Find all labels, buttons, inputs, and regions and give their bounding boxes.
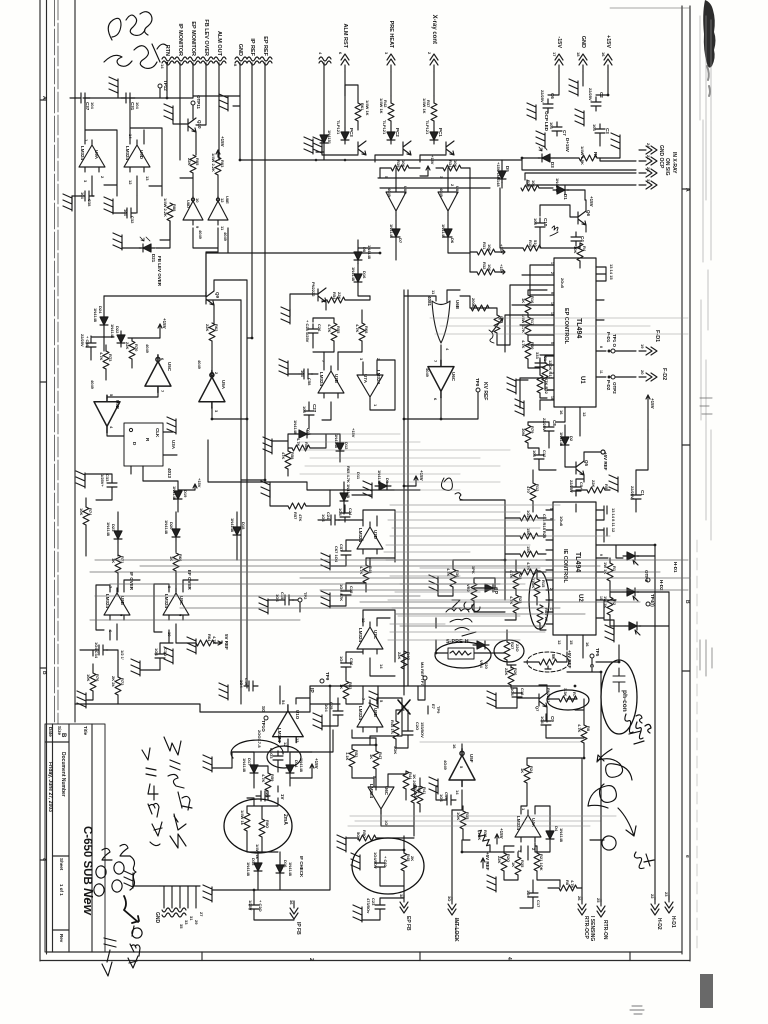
resistor R34 10K [443, 165, 461, 171]
capacitor C1 [631, 490, 641, 504]
capacitor C9 [541, 716, 551, 730]
title block col line 1 [52, 724, 54, 952]
optocoupler PC2 transistor [403, 141, 411, 155]
wire U8B mid [322, 686, 402, 745]
svg-text:R79: R79 [530, 426, 535, 434]
bus wire x408 [407, 290, 409, 686]
svg-text:R4O: R4O [406, 652, 411, 660]
capacitor C37 [76, 93, 90, 103]
bus wire x252 elbow [247, 337, 252, 339]
svg-text:+15V: +15V [430, 155, 435, 165]
svg-text:1O4: 1O4 [540, 716, 545, 724]
svg-text:PC3: PC3 [349, 128, 354, 137]
svg-text:R62: R62 [214, 324, 219, 332]
capacitor C32 [122, 208, 136, 218]
svg-text:LM324: LM324 [516, 816, 521, 831]
resistor R23 4.7K [513, 595, 519, 613]
frame top faint line [610, 7, 690, 9]
handwriting 10mA [128, 926, 142, 968]
svg-text:4.7K: 4.7K [99, 352, 104, 361]
transistor Q5 [576, 461, 584, 475]
svg-text:Q5: Q5 [584, 460, 589, 467]
ground R57 [261, 481, 270, 498]
capacitor C3 104 [595, 124, 605, 138]
svg-text:2: 2 [550, 272, 554, 274]
buffer U8B top [386, 187, 406, 216]
resistor R53 1K [343, 681, 349, 699]
op-amp U6D [368, 782, 394, 814]
svg-text:22K: 22K [497, 856, 502, 863]
diode D21 LED [139, 244, 155, 252]
diode D18 [233, 523, 241, 539]
svg-text:6: 6 [433, 398, 438, 401]
svg-text:H-D1: H-D1 [673, 562, 678, 573]
svg-text:R31: R31 [482, 242, 487, 250]
svg-text:11: 11 [431, 290, 436, 295]
svg-text:U9D: U9D [139, 150, 144, 160]
wire RTR-OCP vertical [581, 758, 583, 900]
svg-text:C9: C9 [550, 716, 555, 722]
svg-text:D16: D16 [283, 860, 288, 868]
wire C8 R79 D2 [528, 422, 565, 470]
svg-text:c: c [41, 858, 47, 861]
svg-text:4.7K: 4.7K [521, 340, 526, 349]
resistor R80b [259, 819, 265, 837]
svg-text:16: 16 [601, 52, 606, 57]
op-amp U8B low [104, 588, 130, 620]
svg-text:47K: 47K [298, 514, 303, 521]
zone tick bottom 3 [629, 952, 631, 961]
SCR S2 gate [633, 596, 638, 601]
+15V arrow D14 [310, 764, 314, 778]
svg-text:U2: U2 [577, 594, 583, 602]
wire U1 pins left [497, 265, 554, 410]
svg-text:1/25V+: 1/25V+ [100, 474, 105, 487]
svg-text:3: 3 [384, 52, 389, 55]
svg-text:9: 9 [178, 614, 183, 617]
svg-text:13 14 15: 13 14 15 [609, 264, 614, 280]
svg-text:22K: 22K [125, 342, 130, 349]
connector chevron EP FB [400, 895, 408, 913]
ph-con pen ellipse [601, 660, 637, 734]
svg-text:PN2222: PN2222 [311, 282, 316, 297]
connector pin IP MONITOR [175, 57, 187, 65]
svg-text:R39: R39 [396, 160, 401, 168]
op-amp U7A [357, 370, 383, 402]
svg-text:TP9: TP9 [325, 672, 330, 681]
svg-text:4.7K: 4.7K [577, 724, 582, 733]
wire R31 R32 left [470, 250, 505, 274]
svg-text:U6C: U6C [451, 372, 456, 382]
junction U6C [440, 418, 443, 421]
svg-text:1/4W 1K: 1/4W 1K [379, 98, 384, 114]
wire R39 row [380, 168, 470, 176]
svg-text:R16: R16 [530, 296, 535, 304]
U2 right pin stubs [596, 510, 616, 618]
bus wire y178 [378, 177, 500, 179]
resistor R8 4.7K [581, 725, 587, 743]
resistor R26 22K [508, 667, 514, 685]
svg-text:22K: 22K [504, 668, 509, 675]
border inner left line [46, 0, 48, 954]
buffer U5F [449, 749, 475, 787]
transistor Q6 [578, 211, 586, 225]
connector ALM RST [341, 54, 349, 72]
svg-text:C4: C4 [580, 236, 585, 242]
diode D15 [254, 859, 262, 875]
ground pin4 [304, 137, 313, 154]
svg-text:D5: D5 [505, 166, 510, 172]
pen mark near C4 [550, 226, 558, 236]
connector GND top [579, 54, 587, 72]
diode VR4 [473, 641, 489, 649]
svg-text:4049: 4049 [145, 344, 150, 354]
SCR S1 [623, 552, 639, 560]
svg-text:Q7: Q7 [535, 706, 540, 712]
connector chevron IP FB [290, 901, 298, 919]
wire R57 [270, 490, 330, 506]
SCR S3 [625, 622, 641, 630]
wire C58 [288, 352, 362, 374]
transistor Q9 [206, 291, 214, 305]
svg-text:18: 18 [576, 52, 581, 57]
wire U6D [352, 738, 414, 836]
VR1 wiper arrow [492, 318, 503, 332]
svg-text:4049: 4049 [223, 232, 228, 242]
resistor R50 50K [358, 835, 376, 841]
wire R41 [419, 778, 421, 812]
svg-text:R19 1K: R19 1K [544, 608, 549, 622]
svg-text:+5V REF: +5V REF [603, 452, 608, 471]
svg-text:TP5: TP5 [595, 648, 600, 657]
svg-text:H-D2: H-D2 [659, 580, 664, 591]
pen ellipse R7 [547, 690, 589, 710]
resistor R58 47K [285, 451, 291, 469]
svg-text:R43 1%: R43 1% [390, 720, 395, 735]
svg-text:1O4 4.7K: 1O4 4.7K [339, 584, 344, 601]
bus wire x404 [403, 290, 405, 686]
resistor R57 47K [288, 503, 306, 509]
buffer U8E [208, 196, 228, 225]
resistor 15K b [520, 551, 538, 557]
svg-text:IF OVER: IF OVER [129, 572, 134, 591]
svg-text:4049: 4049 [387, 188, 392, 198]
ground cluster a [131, 659, 140, 676]
bottom small marks [630, 1006, 644, 1014]
svg-text:SG: SG [261, 706, 266, 713]
svg-text:3O: 3O [447, 896, 452, 901]
svg-text:1N4148: 1N4148 [293, 420, 298, 435]
zone tick right B [682, 444, 690, 446]
junction dots cluster [166, 62, 657, 892]
svg-text:9: 9 [119, 614, 124, 617]
capacitor C24 [326, 515, 340, 525]
ground U4A [487, 875, 496, 892]
right margin marks mid [700, 398, 712, 676]
wire R61 to PC3 [345, 85, 358, 130]
connector chevron RTR-OCP [578, 897, 586, 915]
capacitor C12 [534, 450, 544, 464]
resistor R35 10K [460, 811, 466, 829]
svg-text:CLK: CLK [155, 428, 160, 438]
svg-text:LM324: LM324 [80, 146, 85, 161]
svg-text:+15V: +15V [314, 758, 319, 769]
resistor R3 1/4W 1.5K [579, 155, 597, 161]
svg-text:4049: 4049 [197, 360, 202, 370]
svg-text:LM324: LM324 [319, 372, 324, 387]
svg-text:F-D1: F-D1 [654, 330, 660, 342]
svg-text:200K: 200K [471, 298, 476, 308]
svg-text:U9C: U9C [179, 596, 184, 606]
svg-text:R58: R58 [290, 452, 295, 460]
svg-text:10: 10 [599, 596, 603, 600]
zone tick bottom 2 [419, 952, 421, 961]
svg-text:1/4W 1K: 1/4W 1K [365, 100, 370, 116]
svg-text:U5A: U5A [221, 380, 226, 390]
big pen circle C22 [352, 838, 424, 894]
svg-text:R65 4.7K 1N4148: R65 4.7K 1N4148 [346, 466, 351, 499]
svg-text:1: 1 [373, 404, 378, 407]
wire chevron21 left [600, 158, 636, 161]
capacitor C31 [121, 93, 135, 103]
diode D12 [336, 439, 344, 455]
capacitor C17 [528, 888, 538, 902]
capacitor C4 [571, 232, 581, 246]
resistor 15K a [520, 533, 538, 539]
connector pin FB LEV OVER [201, 57, 213, 65]
resistor R15 110K [534, 579, 540, 597]
op-amp U9A [79, 140, 105, 172]
svg-text:11: 11 [599, 370, 603, 374]
capacitor C33 [107, 478, 117, 492]
stepped bus low [75, 686, 560, 712]
svg-text:C27: C27 [312, 404, 317, 413]
svg-text:R83: R83 [220, 160, 225, 168]
capacitor C27 [304, 406, 314, 420]
resistor R56 [292, 445, 310, 451]
svg-text:2Ou5: 2Ou5 [560, 278, 565, 289]
wire H-D2 vertical [654, 545, 656, 900]
svg-text:R30: R30 [530, 342, 535, 350]
wire U9D feedback loop [130, 98, 162, 196]
wire buffers top row [396, 168, 448, 187]
svg-text:104: 104 [532, 450, 537, 457]
pen scribble VR1 [489, 330, 494, 343]
resistor R46 20K [411, 785, 417, 803]
svg-text:D4: D4 [554, 826, 559, 832]
capacitor C56 [341, 658, 351, 672]
svg-text:1N4148: 1N4148 [93, 308, 98, 323]
wire R54 [322, 296, 370, 302]
svg-text:3PK: 3PK [471, 566, 476, 574]
wire R10 R4 [500, 188, 580, 268]
pin circle U5A in [210, 372, 213, 375]
resistor 200K [471, 305, 489, 311]
capacitor C24b [340, 508, 350, 522]
svg-text:3: 3 [83, 180, 88, 183]
wire down from U8E junction [206, 252, 218, 296]
svg-text:8: 8 [233, 64, 238, 67]
svg-text:R88: R88 [172, 204, 177, 212]
pen ellipse VR4 [435, 642, 491, 668]
wire vertical x380 [379, 168, 381, 178]
wire bottom long y752 [232, 730, 333, 752]
svg-text:22: 22 [650, 894, 655, 899]
handwriting 200 brace a [112, 844, 136, 892]
svg-text:TL494: TL494 [574, 552, 581, 572]
optocoupler PC3 LED [341, 128, 349, 144]
handwriting W=25kV [164, 737, 192, 848]
svg-text:C1O3: C1O3 [269, 748, 274, 759]
svg-text:13: 13 [295, 738, 300, 743]
svg-text:1K: 1K [339, 684, 344, 689]
zone tick left B [40, 381, 47, 383]
test point TP7 [423, 676, 427, 680]
resistor R42 1/4W 1K [388, 103, 394, 121]
svg-text:104: 104 [592, 124, 597, 131]
wire bus gnd [377, 686, 379, 700]
resistor R59 4.7K [265, 773, 271, 791]
svg-text:5: 5 [549, 508, 553, 510]
5V REF arrow [214, 641, 222, 645]
pen ellipse R27 [494, 640, 524, 662]
svg-text:10K: 10K [453, 160, 458, 167]
wire vertical x470 [469, 168, 471, 272]
svg-text:TL494: TL494 [575, 318, 582, 338]
wire Q5 [565, 450, 605, 482]
svg-text:1 of 1: 1 of 1 [59, 884, 64, 896]
+15V arrow x404 [404, 476, 418, 486]
noise band low [348, 742, 616, 826]
connector pin GND [235, 57, 247, 65]
svg-text:22/25V: 22/25V [630, 486, 635, 499]
svg-text:B: B [684, 600, 690, 604]
svg-text:C32: C32 [130, 216, 135, 224]
wire D24 D22 net [91, 296, 160, 380]
+15V arrow row [426, 166, 430, 176]
title block row line sheet [53, 855, 70, 857]
svg-text:54: 54 [281, 700, 286, 705]
svg-text:TP12: TP12 [163, 80, 168, 91]
resistor R29 10K [521, 185, 539, 191]
border bottom outer line [40, 960, 690, 962]
pen mark fsc [634, 722, 651, 744]
wire D11 right [352, 490, 372, 495]
svg-text:TLP121: TLP121 [382, 120, 387, 135]
svg-text:MA REF TP7: MA REF TP7 [420, 662, 425, 686]
resistor R25 1K [515, 857, 521, 875]
connector +15V [604, 54, 612, 72]
op-amp U7C low [357, 622, 383, 654]
svg-text:21: 21 [646, 155, 651, 160]
wire C19 [436, 786, 442, 800]
resistor R74 10K [83, 507, 89, 525]
wire R37 to PC1 [433, 96, 435, 128]
svg-text:TP8: TP8 [475, 378, 480, 387]
svg-text:14: 14 [160, 64, 165, 69]
svg-text:R8: R8 [586, 726, 591, 732]
diode D10 [320, 131, 328, 147]
svg-text:TP4(!): TP4(!) [650, 594, 655, 607]
title block row line rev [53, 929, 70, 931]
svg-text:+15V 1N4148: +15V 1N4148 [496, 162, 501, 187]
svg-text:1N4148: 1N4148 [441, 224, 446, 239]
potentiometer VR1 [494, 315, 500, 333]
title block col line 2 [68, 724, 70, 952]
wire PC3 emitter [322, 146, 358, 155]
svg-text:R8: R8 [565, 880, 570, 886]
svg-text:10K: 10K [79, 508, 84, 515]
svg-text:5OK: 5OK [393, 746, 398, 754]
resistor R8b 4.7K [559, 885, 577, 891]
svg-text:C1: C1 [640, 490, 645, 496]
capacitor C6 22/25V [543, 99, 553, 113]
wire R85 R83 to buffers [180, 173, 218, 202]
svg-text:27: 27 [199, 912, 204, 917]
caps cluster capacitor C30 [155, 649, 165, 663]
svg-text:U1O: U1O [295, 710, 300, 720]
resistor R79 10M [525, 425, 531, 443]
svg-text:16: 16 [585, 642, 590, 647]
svg-text:R: R [145, 438, 150, 442]
svg-text:R15: R15 [541, 580, 546, 588]
svg-text:D16: D16 [362, 271, 367, 279]
svg-text:TLP121: TLP121 [336, 120, 341, 135]
zone tick right A [682, 188, 690, 190]
border zone column line a [54, 0, 56, 724]
svg-text:2: 2 [450, 184, 455, 187]
wire PRE HEAT down [390, 72, 392, 96]
smudge tail [707, 66, 710, 96]
wire OTP11 down [192, 105, 194, 118]
svg-text:R46: R46 [417, 786, 422, 794]
wire IP REF down [251, 63, 253, 338]
svg-text:8: 8 [599, 346, 603, 348]
svg-text:C2: C2 [599, 92, 604, 98]
connector chevron 21 [639, 157, 657, 165]
wire buffers out [160, 221, 218, 252]
ground cluster b [164, 647, 173, 664]
svg-text:20: 20 [640, 370, 645, 375]
wire U7C cluster [346, 610, 395, 680]
wire Q10 base [173, 113, 188, 124]
svg-text:1O4/5OV: 1O4/5OV [373, 852, 378, 869]
svg-text:1K: 1K [111, 558, 116, 563]
svg-text:U7D: U7D [373, 530, 378, 540]
ground comb left [124, 871, 133, 888]
ground C29 [313, 713, 322, 730]
svg-text:22O: 22O [515, 644, 520, 652]
svg-text:1/25V: 1/25V [248, 900, 253, 911]
svg-text:10K: 10K [401, 160, 406, 167]
+15V arrow right [646, 395, 650, 430]
svg-text:R47: R47 [378, 752, 383, 760]
ground U5F [429, 777, 438, 794]
wire Q9 R62 [212, 280, 240, 368]
SCR S1 gate [633, 560, 638, 565]
bus wire x265 elbow [241, 479, 265, 481]
svg-text:22K: 22K [591, 480, 596, 487]
svg-text:U6B: U6B [455, 300, 460, 310]
svg-text:11OK: 11OK [531, 578, 536, 588]
+15V arrow mid [158, 324, 162, 338]
capacitor C5 [571, 482, 581, 496]
resistor R30 4.7K [525, 341, 531, 359]
handwritten scribble Pnio [446, 608, 476, 636]
wire comb left [133, 880, 160, 886]
svg-text:ON SIG: ON SIG [664, 158, 670, 176]
svg-text:+ C2O: + C2O [258, 900, 263, 912]
